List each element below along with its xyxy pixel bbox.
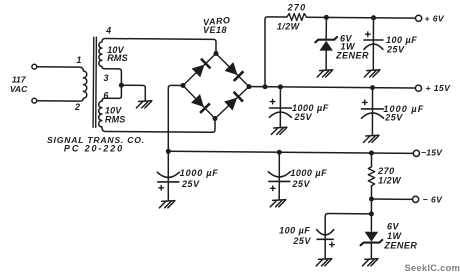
svg-text:+ 15V: + 15V: [426, 83, 452, 93]
svg-text:PC 20-220: PC 20-220: [64, 144, 124, 154]
svg-text:117: 117: [12, 75, 27, 85]
svg-text:RMS: RMS: [107, 53, 128, 63]
svg-text:+ 6V: + 6V: [425, 13, 445, 23]
svg-text:1000 µF: 1000 µF: [290, 168, 327, 178]
svg-text:25V: 25V: [384, 113, 403, 123]
svg-text:1/2W: 1/2W: [378, 176, 402, 186]
svg-text:ZENER: ZENER: [383, 241, 417, 251]
svg-text:SeekIC.com: SeekIC.com: [405, 263, 460, 273]
svg-text:VAC: VAC: [10, 84, 28, 94]
svg-text:ZENER: ZENER: [335, 51, 369, 61]
svg-text:25V: 25V: [292, 179, 311, 189]
svg-text:−15V: −15V: [421, 147, 443, 157]
svg-text:− 6V: − 6V: [423, 194, 443, 204]
svg-text:25V: 25V: [292, 236, 311, 246]
svg-text:1: 1: [76, 55, 81, 65]
svg-text:3: 3: [103, 73, 108, 83]
svg-text:1/2W: 1/2W: [277, 21, 301, 31]
svg-text:RMS: RMS: [105, 115, 126, 125]
svg-text:25V: 25V: [181, 179, 200, 189]
svg-text:VE18: VE18: [203, 25, 227, 35]
svg-text:25V: 25V: [294, 112, 313, 122]
svg-text:25V: 25V: [386, 45, 405, 55]
svg-text:6V: 6V: [387, 222, 400, 232]
svg-text:270: 270: [377, 166, 395, 176]
svg-text:270: 270: [287, 3, 307, 13]
svg-text:100 µF: 100 µF: [279, 226, 310, 236]
svg-text:1000 µF: 1000 µF: [180, 168, 219, 178]
svg-text:100 µF: 100 µF: [386, 35, 417, 45]
svg-text:4: 4: [105, 26, 111, 36]
svg-text:2: 2: [74, 102, 80, 112]
